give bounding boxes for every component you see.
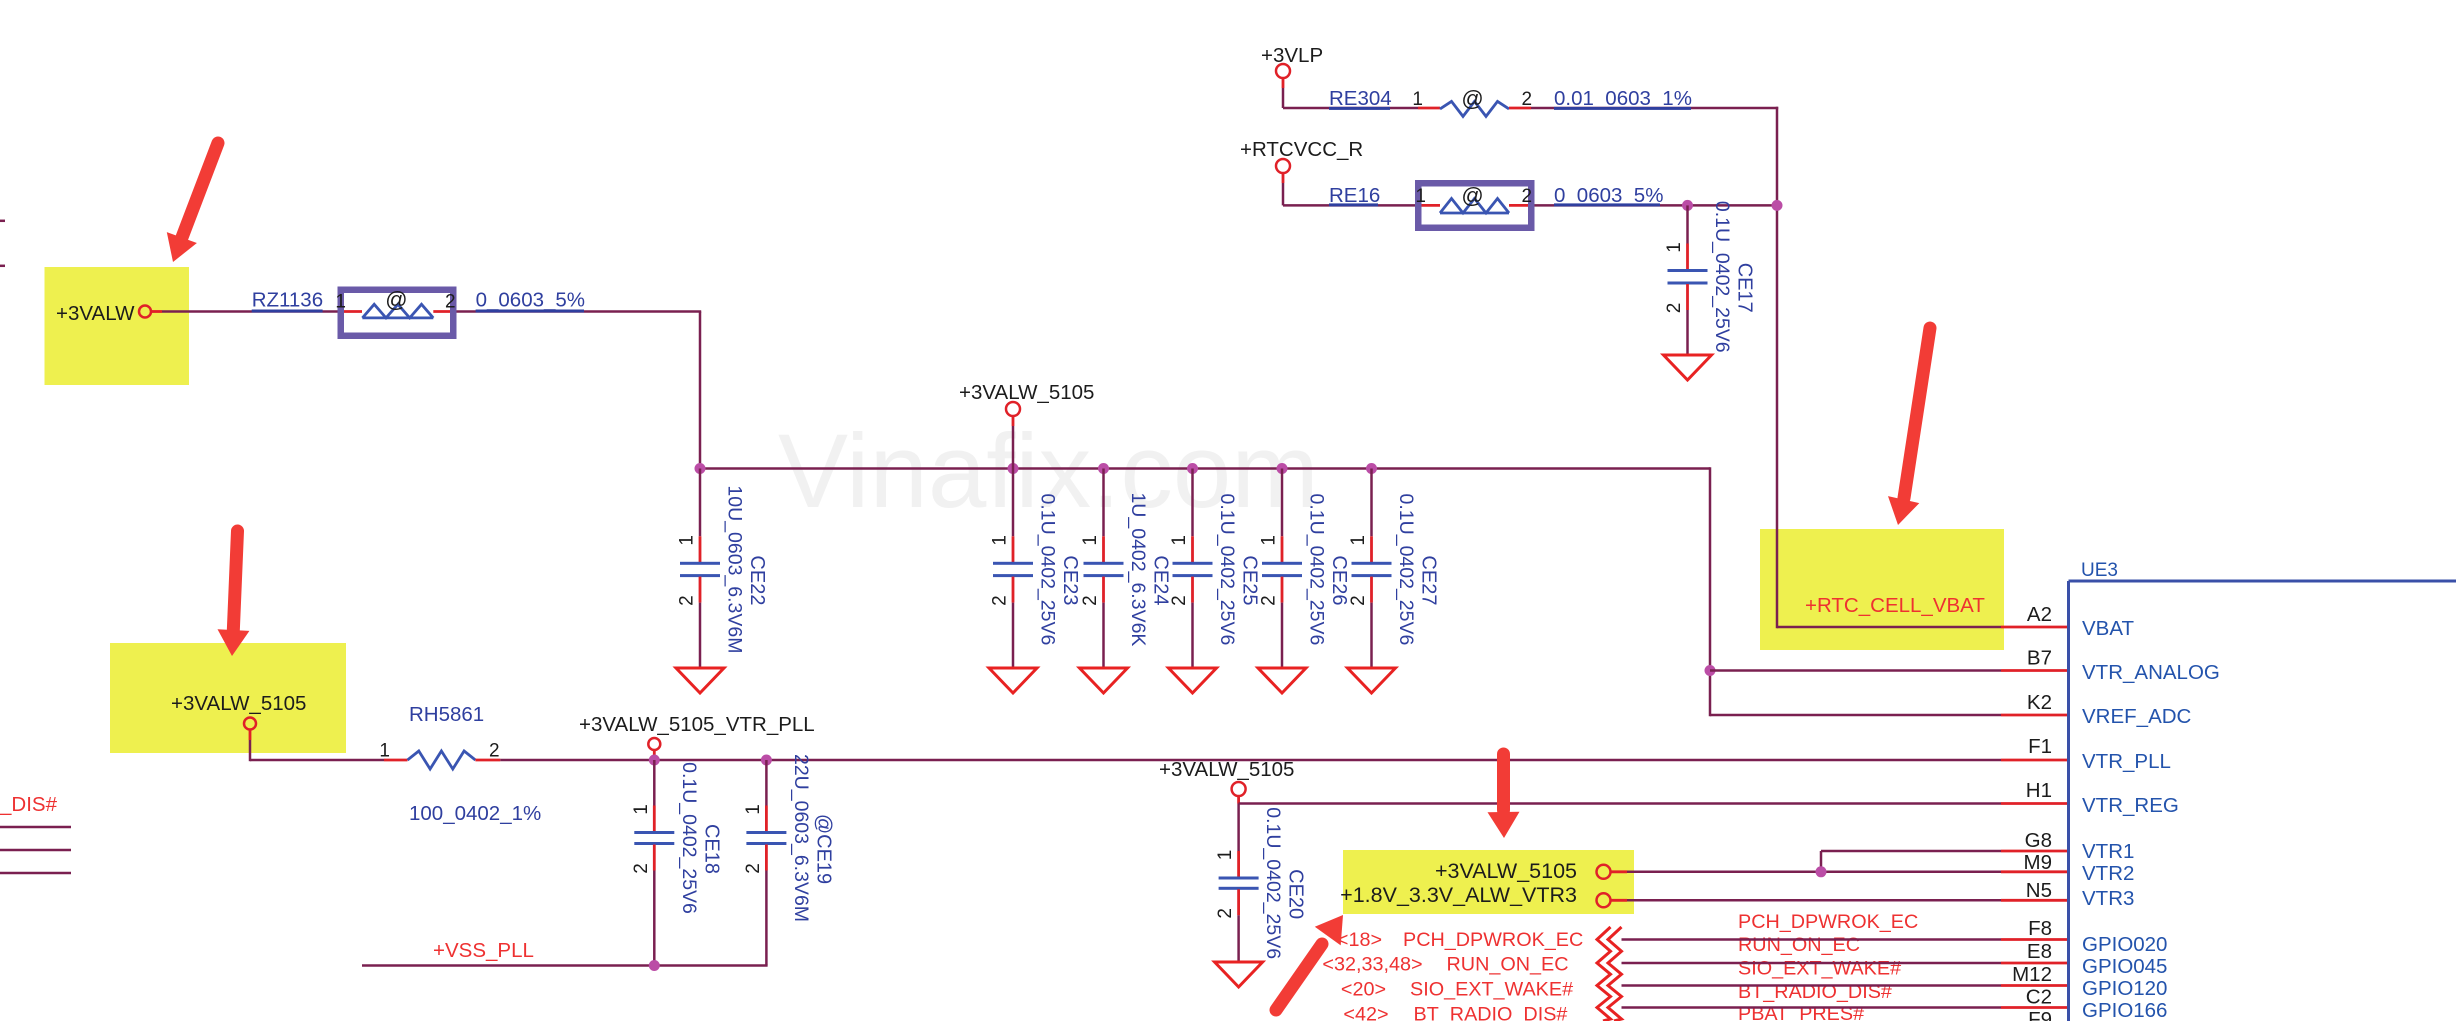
off-page connector zigzag — [1597, 927, 1622, 1021]
pin number F8 — [2028, 917, 2052, 940]
purple highlight RE16 — [1418, 183, 1531, 228]
highlight box +3VALW — [45, 267, 190, 385]
svg-text:VREF_ADC: VREF_ADC — [2082, 705, 2192, 728]
capacitor CE25 — [1173, 469, 1213, 669]
wire +RTC_CELL_VBAT to pin A2 — [1777, 626, 2069, 629]
IC UE3 border — [2069, 581, 2456, 1021]
capacitor CE19 — [746, 760, 786, 966]
pin 2 CE25 — [1169, 595, 1190, 606]
pin name VTR3 — [2082, 887, 2134, 910]
net label +RTCVCC_R — [1240, 138, 1363, 161]
wire +3VLP to RE304 — [1283, 107, 1418, 110]
highlight box +RTC_CELL_VBAT — [1760, 529, 2004, 650]
wire RE304 to corner — [1531, 107, 1778, 110]
pin number A2 — [2027, 603, 2052, 626]
pin 2 CE19 — [743, 863, 764, 874]
pin 1 CE22 — [677, 535, 698, 546]
resistor RZ1136 — [338, 304, 456, 318]
svg-text:RH5861: RH5861 — [409, 703, 484, 726]
pin 2 CE24 — [1080, 595, 1101, 606]
net label BT_RADIO_DIS# (right) — [1738, 981, 1892, 1003]
ground CE26 — [1258, 668, 1306, 693]
power symbol +RTCVCC_R — [1276, 159, 1290, 205]
refdes CE25 — [1239, 555, 1261, 605]
ref <18> PCH_DPWROK_EC — [1337, 929, 1583, 951]
power symbol +3VALW_5105 (left box) — [244, 718, 256, 762]
power symbol +3VALW_5105 (bus) — [1006, 402, 1020, 469]
svg-text:RUN_ON_EC: RUN_ON_EC — [1447, 954, 1569, 976]
svg-text:2: 2 — [1348, 595, 1369, 606]
svg-text:_DIS#: _DIS# — [0, 793, 58, 816]
wire pin M9 VTR2 — [1611, 870, 2069, 873]
svg-text:CE20: CE20 — [1285, 869, 1307, 919]
svg-text:+3VALW_5105: +3VALW_5105 — [1159, 758, 1294, 781]
refdes UE3 — [2081, 560, 2118, 581]
pin name VTR1 — [2082, 840, 2134, 863]
svg-text:<42>: <42> — [1343, 1004, 1388, 1022]
value CE27 0.1U_0402_25V6 — [1395, 494, 1417, 646]
refdes CE18 — [700, 824, 722, 874]
svg-text:CE23: CE23 — [1059, 555, 1081, 605]
capacitor CE26 — [1262, 469, 1302, 669]
pin 1 CE24 — [1080, 535, 1101, 546]
svg-text:2: 2 — [1522, 89, 1533, 110]
pin name VREF_ADC — [2082, 705, 2192, 728]
pin 1 CE27 — [1348, 535, 1369, 546]
svg-text:PBAT_PRES#: PBAT_PRES# — [1738, 1003, 1864, 1021]
ref <42> BT_RADIO_DIS# — [1343, 1004, 1567, 1026]
refdes CE24 — [1150, 555, 1172, 605]
pin name VTR2 — [2082, 862, 2134, 885]
pin 1 CE23 — [990, 535, 1011, 546]
svg-text:H1: H1 — [2026, 779, 2052, 802]
junction M9/G8 — [1816, 866, 1827, 877]
svg-text:GPIO020: GPIO020 — [2082, 933, 2167, 956]
pin2 RH5861 — [489, 741, 500, 762]
pin number F1 — [2028, 735, 2052, 758]
pin name GPIO020 — [2082, 933, 2167, 956]
svg-text:1: 1 — [1080, 535, 1101, 546]
pin 2 CE20 — [1215, 908, 1236, 919]
pin 1 CE18 — [631, 804, 652, 815]
value @ RZ1136 — [385, 287, 407, 312]
junction CE18 top — [649, 755, 660, 766]
svg-text:CE22: CE22 — [746, 555, 768, 605]
svg-text:GPIO166: GPIO166 — [2082, 999, 2167, 1021]
svg-text:+VSS_PLL: +VSS_PLL — [433, 939, 534, 962]
svg-text:2: 2 — [1259, 595, 1280, 606]
svg-text:2: 2 — [743, 863, 764, 874]
pin 1 CE20 — [1215, 850, 1236, 861]
wire to RH5861 — [250, 759, 384, 762]
svg-text:GPIO045: GPIO045 — [2082, 955, 2167, 978]
junction CE23 — [1008, 463, 1019, 474]
svg-text:1: 1 — [1169, 535, 1190, 546]
junction B7 — [1705, 665, 1716, 676]
refdes RE16 — [1329, 184, 1380, 207]
svg-text:<18>: <18> — [1337, 929, 1382, 951]
pin1 RZ1136 — [335, 292, 346, 313]
svg-text:CE17: CE17 — [1734, 263, 1756, 313]
svg-text:VTR_ANALOG: VTR_ANALOG — [2082, 661, 2220, 684]
svg-text:UE3: UE3 — [2081, 560, 2118, 581]
label +3VALW — [56, 302, 135, 325]
label +3VALW_5105 (right box) — [1435, 859, 1577, 883]
ref <20> SIO_EXT_WAKE# — [1341, 979, 1573, 1001]
value RZ1136 — [476, 289, 585, 313]
svg-text:SIO_EXT_WAKE#: SIO_EXT_WAKE# — [1410, 979, 1573, 1001]
junction CE24 — [1098, 463, 1109, 474]
value CE23 0.1U_0402_25V6 — [1037, 494, 1059, 646]
svg-text:M12: M12 — [2012, 963, 2052, 986]
svg-text:CE27: CE27 — [1418, 555, 1440, 605]
svg-text:F8: F8 — [2028, 917, 2052, 940]
svg-text:2: 2 — [1522, 186, 1533, 207]
pin2 RE304 — [1522, 89, 1533, 110]
svg-text:CE26: CE26 — [1328, 555, 1350, 605]
refdes CE27 — [1418, 555, 1440, 605]
svg-text:E8: E8 — [2027, 940, 2052, 963]
resistor RE304 — [1418, 101, 1531, 116]
pin2 RZ1136 — [445, 292, 456, 313]
refdes RE304 — [1329, 87, 1392, 110]
junction CE27 — [1366, 463, 1377, 474]
svg-text:+3VALW_5105: +3VALW_5105 — [1435, 859, 1577, 883]
svg-text:0.01_0603_1%: 0.01_0603_1% — [1554, 87, 1692, 110]
svg-text:PCH_DPWROK_EC: PCH_DPWROK_EC — [1738, 911, 1918, 933]
refdes RH5861 — [409, 703, 484, 726]
pin number N5 — [2026, 879, 2052, 902]
pin 1 CE26 — [1259, 535, 1280, 546]
svg-text:VTR2: VTR2 — [2082, 862, 2134, 885]
pin name GPIO120 — [2082, 977, 2167, 1000]
junction CE19 top — [761, 755, 772, 766]
svg-text:1U_0402_6.3V6K: 1U_0402_6.3V6K — [1127, 492, 1149, 646]
wire RE16 to CE17 node — [1531, 204, 1777, 207]
wire +3VALW to RZ1136 — [162, 310, 338, 313]
svg-text:@: @ — [1461, 183, 1483, 208]
svg-text:<20>: <20> — [1341, 979, 1386, 1001]
pin 1 CE17 — [1664, 242, 1685, 253]
ground CE25 — [1169, 668, 1217, 693]
net label PBAT_PRES# (right) — [1738, 1003, 1864, 1025]
pin name GPIO045 — [2082, 955, 2167, 978]
power symbol +3VLP — [1276, 64, 1290, 108]
pin number G8 — [2025, 829, 2052, 852]
value CE20 0.1U_0402_25V6 — [1262, 807, 1284, 959]
svg-text:2: 2 — [1169, 595, 1190, 606]
svg-text:0.1U_0402_25V6: 0.1U_0402_25V6 — [1395, 494, 1417, 646]
svg-text:RZ1136: RZ1136 — [252, 289, 323, 312]
pin number B7 — [2027, 647, 2052, 670]
pin 1 CE25 — [1169, 535, 1190, 546]
resistor RE16 — [1418, 199, 1531, 214]
annotation arrow 1 — [167, 143, 218, 262]
pin name GPIO166 — [2082, 999, 2167, 1022]
ground CE22 — [676, 668, 724, 693]
annotation arrow 2 — [218, 531, 250, 656]
svg-text:+3VALW_5105: +3VALW_5105 — [171, 692, 306, 715]
capacitor CE18 — [634, 760, 674, 966]
value CE24 1U_0402_6.3V6K — [1127, 492, 1149, 646]
pin number H1 — [2026, 779, 2052, 802]
label +1.8V_3.3V_ALW_VTR3 — [1340, 883, 1577, 907]
svg-text:1: 1 — [1415, 186, 1426, 207]
svg-text:100_0402_1%: 100_0402_1% — [409, 802, 541, 825]
svg-text:F1: F1 — [2028, 735, 2052, 758]
svg-text:F9: F9 — [2028, 1008, 2052, 1021]
pin number C2 — [2026, 986, 2052, 1009]
ground CE24 — [1080, 668, 1128, 693]
svg-text:A2: A2 — [2027, 603, 2052, 626]
pin number M12 — [2012, 963, 2052, 986]
svg-text:<32,33,48>: <32,33,48> — [1322, 954, 1422, 976]
svg-text:2: 2 — [631, 863, 652, 874]
svg-text:RE304: RE304 — [1329, 87, 1392, 110]
annotation arrow 5 — [1276, 915, 1343, 1010]
pin1 RH5861 — [379, 741, 390, 762]
left edge wires _DIS# bus — [0, 827, 71, 873]
net label +3VALW_5105 (H1) — [1159, 758, 1294, 781]
svg-text:CE18: CE18 — [700, 824, 722, 874]
junction CE17 node — [1682, 200, 1693, 211]
svg-text:0.1U_0402_25V6: 0.1U_0402_25V6 — [678, 762, 700, 914]
junction CE22 — [695, 463, 706, 474]
highlight box +3VALW_5105 left — [110, 643, 346, 753]
value RH5861 — [409, 802, 541, 825]
value CE25 0.1U_0402_25V6 — [1216, 494, 1238, 646]
svg-text:1: 1 — [1259, 535, 1280, 546]
pin1 RE304 — [1412, 89, 1423, 110]
pin number F9 — [2028, 1008, 2052, 1026]
svg-text:1: 1 — [631, 804, 652, 815]
capacitor CE17 — [1668, 205, 1708, 355]
junction CE18 bottom — [649, 960, 660, 971]
wire bus +3VALW_5105 — [700, 467, 1710, 470]
svg-text:0.1U_0402_25V6: 0.1U_0402_25V6 — [1037, 494, 1059, 646]
net label _DIS# — [0, 793, 58, 816]
svg-text:22U_0603_6.3V6M: 22U_0603_6.3V6M — [790, 754, 812, 922]
value @ RE16 — [1461, 183, 1483, 208]
wire RH5861 to pin F1 (VTR_PLL net) — [500, 759, 2068, 762]
pin 1 CE19 — [743, 804, 764, 815]
svg-text:VTR_PLL: VTR_PLL — [2082, 750, 2171, 773]
svg-text:C2: C2 — [2026, 986, 2052, 1009]
svg-text:@: @ — [385, 287, 407, 312]
refdes CE22 — [746, 555, 768, 605]
net label +3VLP — [1261, 44, 1323, 67]
net label SIO_EXT_WAKE# (right) — [1738, 958, 1901, 980]
purple highlight RZ1136 — [341, 290, 454, 336]
wire bus to VTR_ANALOG/VREF_ADC — [1709, 467, 1712, 716]
svg-text:0.1U_0402_25V6: 0.1U_0402_25V6 — [1711, 201, 1733, 353]
svg-text:G8: G8 — [2025, 829, 2052, 852]
wire vertical x=1777 — [1776, 107, 1779, 628]
svg-text:+3VLP: +3VLP — [1261, 44, 1323, 67]
capacitor CE24 — [1084, 469, 1124, 669]
wire +RTCVCC_R to RE16 — [1283, 204, 1418, 207]
net label +3VALW_5105_VTR_PLL — [579, 713, 815, 736]
value RE16 — [1554, 184, 1663, 207]
capacitor CE27 — [1352, 469, 1392, 669]
pin 2 CE17 — [1664, 303, 1685, 314]
svg-text:0.1U_0402_25V6: 0.1U_0402_25V6 — [1306, 494, 1328, 646]
pin number M9 — [2024, 851, 2052, 874]
annotation arrow 4 — [1488, 754, 1520, 838]
refdes CE23 — [1059, 555, 1081, 605]
ground CE27 — [1348, 668, 1396, 693]
watermark — [778, 413, 1319, 530]
pin name VTR_ANALOG — [2082, 661, 2220, 684]
highlight box +3VALW_5105/+1.8V_3.3V_ALW_VTR3 — [1343, 850, 1634, 914]
svg-text:10U_0603_6.3V6M: 10U_0603_6.3V6M — [724, 485, 746, 653]
svg-text:GPIO120: GPIO120 — [2082, 977, 2167, 1000]
svg-text:+3VALW_5105: +3VALW_5105 — [959, 381, 1094, 404]
capacitor CE20 — [1219, 804, 1259, 963]
svg-text:0_0603_5%: 0_0603_5% — [476, 289, 585, 312]
svg-text:+RTC_CELL_VBAT: +RTC_CELL_VBAT — [1805, 594, 1985, 617]
svg-text:BT_RADIO_DIS#: BT_RADIO_DIS# — [1414, 1004, 1568, 1022]
left edge tick 2 — [0, 265, 5, 268]
pin number K2 — [2027, 691, 2052, 714]
wire pin N5 VTR3 — [1611, 899, 2069, 902]
pin 2 CE18 — [631, 863, 652, 874]
svg-text:1: 1 — [990, 535, 1011, 546]
refdes CE26 — [1328, 555, 1350, 605]
wire pin C2 — [1622, 1006, 2069, 1009]
value CE26 0.1U_0402_25V6 — [1306, 494, 1328, 646]
power symbol +3VALW_5105 (H1) — [1232, 782, 1246, 804]
ground CE20 — [1215, 962, 1263, 987]
svg-text:@: @ — [1461, 86, 1483, 111]
refdes CE17 — [1734, 263, 1756, 313]
svg-text:1: 1 — [1348, 535, 1369, 546]
wire pin M12 — [1622, 984, 2069, 987]
svg-text:0.1U_0402_25V6: 0.1U_0402_25V6 — [1216, 494, 1238, 646]
net label +3VALW_5105 (bus) — [959, 381, 1094, 404]
svg-text:+3VALW: +3VALW — [56, 302, 135, 325]
pin2 RE16 — [1522, 186, 1533, 207]
net label PCH_DPWROK_EC (right) — [1738, 911, 1918, 933]
svg-text:CE25: CE25 — [1239, 555, 1261, 605]
wire pin E8 — [1622, 962, 2069, 965]
junction CE26 — [1277, 463, 1288, 474]
svg-text:1: 1 — [335, 292, 346, 313]
svg-text:2: 2 — [445, 292, 456, 313]
capacitor CE23 — [993, 469, 1033, 669]
svg-text:1: 1 — [1215, 850, 1236, 861]
value CE19 22U_0603_6.3V6M — [790, 754, 812, 922]
resistor RH5861 — [384, 751, 500, 769]
wire pin K2 — [1710, 714, 2069, 717]
ground CE17 — [1664, 355, 1712, 380]
annotation arrow 3 — [1888, 328, 1930, 525]
svg-text:1: 1 — [1664, 242, 1685, 253]
wire pin G8 VTR1 — [1821, 851, 2069, 872]
svg-text:VBAT: VBAT — [2082, 617, 2134, 640]
svg-text:2: 2 — [1215, 908, 1236, 919]
pin 2 CE26 — [1259, 595, 1280, 606]
svg-text:N5: N5 — [2026, 879, 2052, 902]
power symbol +3VALW_5105_VTR_PLL — [648, 738, 660, 760]
power circle VTR3 — [1597, 893, 1611, 907]
pin name VBAT — [2082, 617, 2134, 640]
svg-text:1: 1 — [1412, 89, 1423, 110]
net label RUN_ON_EC (right) — [1738, 934, 1860, 956]
power symbol +3VALW — [139, 306, 162, 318]
wire pin F8 — [1622, 938, 2069, 941]
pin number E8 — [2027, 940, 2052, 963]
svg-text:+1.8V_3.3V_ALW_VTR3: +1.8V_3.3V_ALW_VTR3 — [1340, 883, 1577, 907]
pin name VTR_PLL — [2082, 750, 2171, 773]
svg-text:RUN_ON_EC: RUN_ON_EC — [1738, 934, 1860, 956]
wire pin B7 — [1710, 669, 2069, 672]
svg-text:@CE19: @CE19 — [812, 814, 834, 884]
value CE17 0.1U_0402_25V6 — [1711, 201, 1733, 353]
junction CE25 — [1187, 463, 1198, 474]
junction at x=1777 — [1772, 200, 1783, 211]
ground CE23 — [989, 668, 1037, 693]
svg-text:+3VALW_5105_VTR_PLL: +3VALW_5105_VTR_PLL — [579, 713, 815, 736]
wire RZ1136 to corner — [455, 312, 701, 469]
svg-text:+RTCVCC_R: +RTCVCC_R — [1240, 138, 1363, 161]
refdes RZ1136 — [252, 289, 323, 313]
net label +VSS_PLL — [433, 939, 534, 962]
svg-text:0.1U_0402_25V6: 0.1U_0402_25V6 — [1262, 807, 1284, 959]
wire pin H1 VTR_REG — [1239, 802, 2069, 805]
svg-text:VTR3: VTR3 — [2082, 887, 2134, 910]
left edge tick 1 — [0, 220, 5, 223]
value CE18 0.1U_0402_25V6 — [678, 762, 700, 914]
refdes CE20 — [1285, 869, 1307, 919]
svg-text:VTR1: VTR1 — [2082, 840, 2134, 863]
value @ RE304 — [1461, 86, 1483, 111]
ref <32,33,48> RUN_ON_EC — [1322, 954, 1568, 976]
svg-text:2: 2 — [1664, 303, 1685, 314]
svg-text:1: 1 — [379, 741, 390, 762]
svg-text:1: 1 — [677, 535, 698, 546]
svg-text:2: 2 — [990, 595, 1011, 606]
pin1 RE16 — [1415, 186, 1426, 207]
svg-text:1: 1 — [743, 804, 764, 815]
pin 2 CE23 — [990, 595, 1011, 606]
pin 2 CE27 — [1348, 595, 1369, 606]
svg-text:PCH_DPWROK_EC: PCH_DPWROK_EC — [1403, 929, 1583, 951]
svg-text:2: 2 — [677, 595, 698, 606]
pin 2 CE22 — [677, 595, 698, 606]
svg-text:K2: K2 — [2027, 691, 2052, 714]
svg-text:VTR_REG: VTR_REG — [2082, 794, 2179, 817]
wire +VSS_PLL — [362, 964, 768, 967]
capacitor CE22 — [680, 469, 720, 669]
svg-text:B7: B7 — [2027, 647, 2052, 670]
refdes CE19 — [812, 814, 834, 884]
svg-text:2: 2 — [489, 741, 500, 762]
value RE304 — [1554, 87, 1692, 110]
pin name VTR_REG — [2082, 794, 2179, 817]
power circle VTR2 — [1597, 865, 1611, 879]
svg-text:SIO_EXT_WAKE#: SIO_EXT_WAKE# — [1738, 958, 1901, 980]
svg-text:2: 2 — [1080, 595, 1101, 606]
value CE22 10U_0603_6.3V6M — [724, 485, 746, 653]
label +RTC_CELL_VBAT — [1805, 594, 1985, 617]
svg-text:M9: M9 — [2024, 851, 2052, 874]
label +3VALW_5105 (left box) — [171, 692, 306, 715]
